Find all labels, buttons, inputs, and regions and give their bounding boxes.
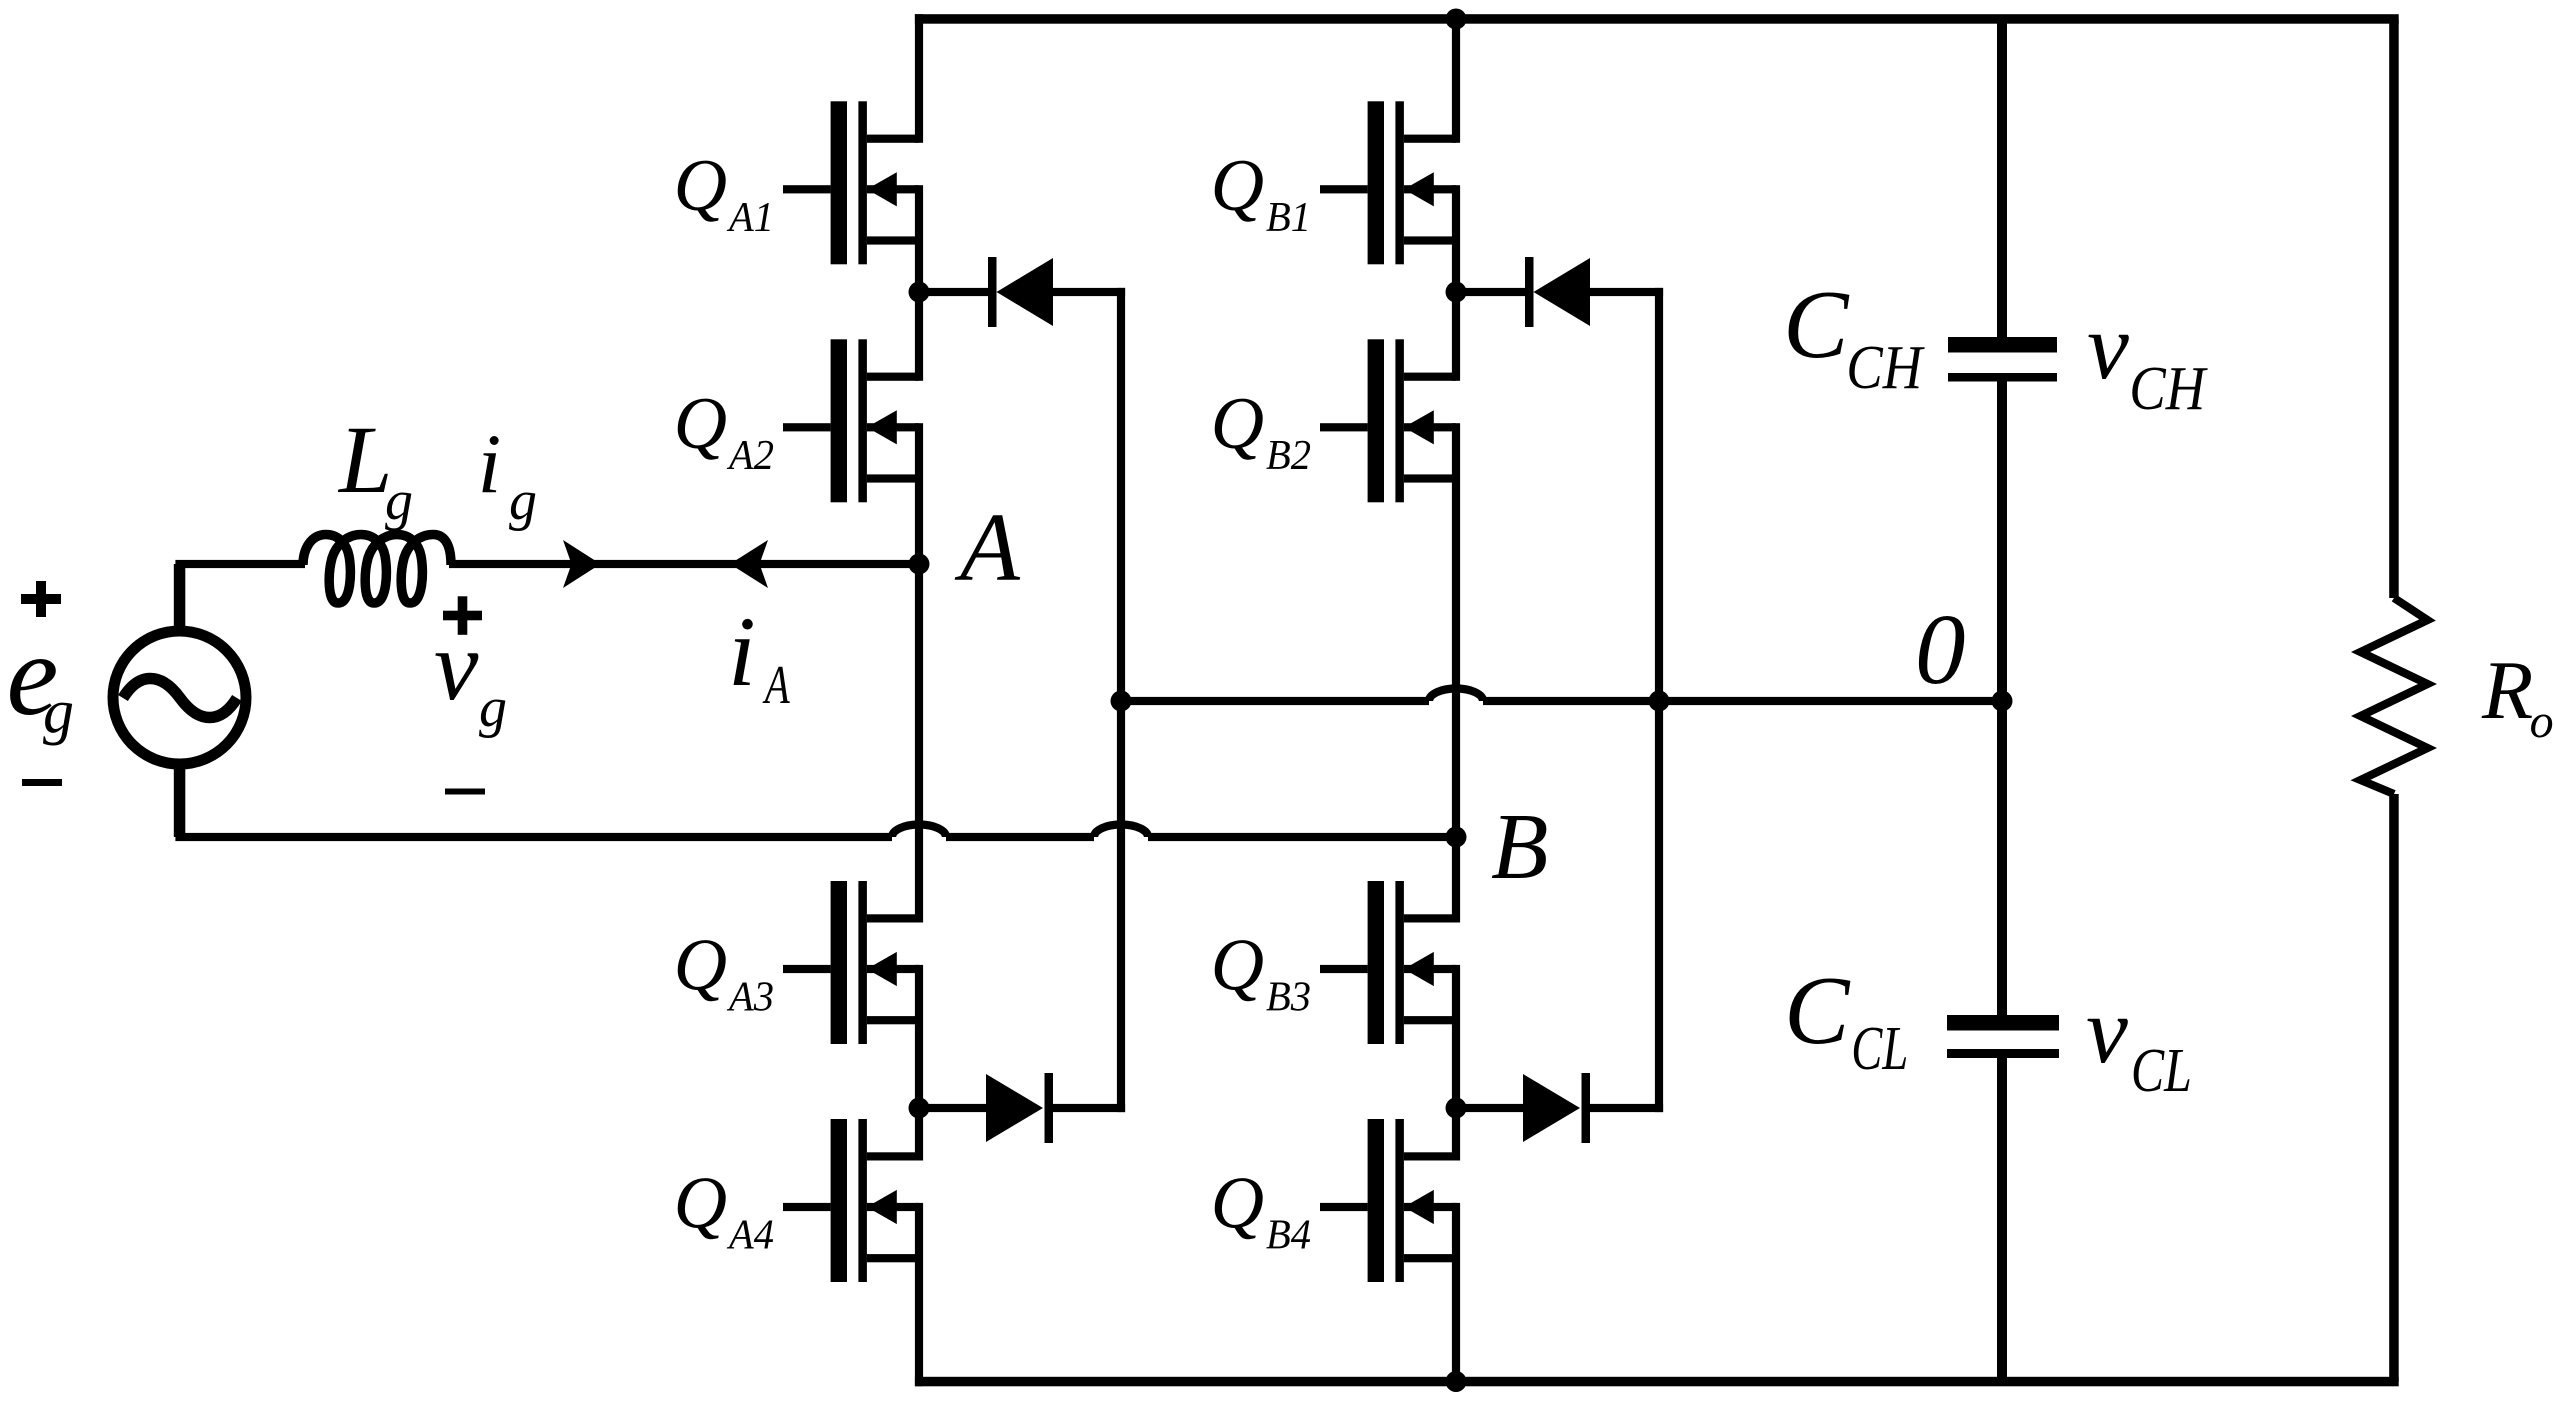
- wire source top lead: [174, 564, 186, 631]
- svg-text:i: i: [728, 596, 756, 707]
- svg-text:v: v: [2087, 295, 2129, 399]
- wire source bottom lead: [174, 764, 186, 837]
- wire clamp branch B vertical: [1655, 288, 1663, 1112]
- bottom rail (negative dc bus): [915, 1377, 2399, 1387]
- wire return right part: [1148, 833, 1456, 841]
- junction dot QA1-QA2 midpoint: [909, 282, 930, 303]
- svg-text:A: A: [954, 494, 1021, 602]
- resistor Ro: [2361, 598, 2428, 794]
- label v_g minus: [445, 789, 485, 795]
- svg-text:g: g: [509, 470, 537, 532]
- svg-text:Q: Q: [674, 1163, 727, 1245]
- diode DA2 clamp: [919, 1073, 1125, 1143]
- wire node A horizontal left part: [175, 560, 305, 568]
- svg-text:0: 0: [1915, 593, 1966, 705]
- svg-text:A1: A1: [726, 195, 774, 241]
- svg-text:B1: B1: [1266, 195, 1311, 241]
- svg-text:Q: Q: [1211, 383, 1264, 465]
- transistor QB4: [1320, 1119, 1456, 1282]
- svg-text:A: A: [762, 654, 790, 715]
- transistor QB3: [1320, 881, 1456, 1044]
- transistor QA4: [783, 1119, 919, 1282]
- svg-text:v: v: [434, 610, 479, 721]
- svg-text:A4: A4: [726, 1213, 774, 1259]
- transistor QA2: [783, 339, 919, 502]
- svg-text:A3: A3: [726, 975, 774, 1021]
- svg-text:o: o: [2530, 695, 2554, 748]
- wire hop neutral over leg B: [1429, 689, 1483, 702]
- node A junction dot: [909, 554, 930, 575]
- capacitor CCL: [1947, 1015, 2059, 1058]
- transistor QA1: [783, 101, 919, 264]
- junction dot QB3-QB4 midpoint: [1446, 1098, 1467, 1119]
- svg-text:g: g: [43, 678, 74, 746]
- wire leg A rail segments: [915, 14, 923, 1386]
- svg-text:A2: A2: [726, 433, 774, 479]
- wire neutral rail right part: [1483, 697, 2002, 705]
- inductor L_g: [303, 535, 451, 604]
- label e_g minus: [22, 779, 62, 786]
- svg-text:CL: CL: [1851, 1015, 1908, 1083]
- wire clamp branch A vertical: [1117, 288, 1125, 1112]
- capacitor CCH: [1948, 337, 2057, 382]
- svg-text:g: g: [479, 677, 507, 739]
- junction dot clamp branch A neutral: [1111, 691, 1132, 712]
- svg-text:R: R: [2481, 644, 2533, 737]
- svg-text:Q: Q: [1211, 925, 1264, 1007]
- svg-text:B4: B4: [1266, 1213, 1311, 1259]
- svg-text:B: B: [1491, 795, 1548, 899]
- svg-text:CL: CL: [2131, 1037, 2192, 1105]
- wire hop return over clamp branch A: [1094, 825, 1148, 838]
- voltage source e_g: [113, 631, 246, 764]
- junction dot leg B top rail: [1446, 9, 1467, 30]
- label e_g plus: [21, 581, 61, 617]
- current arrow i_g: [563, 540, 601, 588]
- svg-text:Q: Q: [1211, 145, 1264, 227]
- top rail (positive dc bus): [915, 14, 2399, 24]
- svg-text:C: C: [1783, 271, 1850, 379]
- diode DB2 clamp: [1456, 1073, 1663, 1143]
- svg-text:i: i: [478, 417, 502, 511]
- svg-text:B2: B2: [1266, 433, 1311, 479]
- wire bottom return to node B: [175, 833, 892, 841]
- wire leg B rail segments: [1452, 14, 1460, 1386]
- svg-text:CH: CH: [2129, 355, 2208, 423]
- diode DA1 clamp: [919, 257, 1125, 327]
- junction dot clamp branch B neutral: [1649, 691, 1670, 712]
- transistor QB1: [1320, 101, 1456, 264]
- wire return mid part: [946, 833, 1094, 841]
- wire hop return over leg A: [892, 825, 946, 838]
- transistor QA3: [783, 881, 919, 1044]
- svg-text:CH: CH: [1846, 334, 1925, 402]
- right outer rail upper segment: [2389, 19, 2399, 598]
- svg-text:Q: Q: [674, 383, 727, 465]
- svg-text:Q: Q: [674, 925, 727, 1007]
- right outer rail lower segment: [2389, 794, 2399, 1382]
- junction dot QB1-QB2 midpoint: [1446, 282, 1467, 303]
- current arrow i_A: [730, 540, 768, 588]
- wire capacitor branch segments: [1997, 19, 2007, 1382]
- wire neutral rail to node 0: [1121, 697, 1429, 705]
- svg-text:Q: Q: [1211, 1163, 1264, 1245]
- svg-text:C: C: [1784, 957, 1851, 1065]
- wire node A horizontal right part: [449, 560, 919, 568]
- svg-text:B3: B3: [1266, 975, 1311, 1021]
- label v_g plus: [443, 596, 482, 635]
- svg-text:Q: Q: [674, 145, 727, 227]
- svg-text:v: v: [2086, 979, 2128, 1083]
- node 0 junction dot: [1992, 691, 2013, 712]
- junction dot leg B bottom rail: [1446, 1371, 1467, 1392]
- svg-text:g: g: [385, 470, 413, 532]
- node B junction dot: [1446, 827, 1467, 848]
- transistor QB2: [1320, 339, 1456, 502]
- junction dot QA3-QA4 midpoint: [909, 1098, 930, 1119]
- diode DB1 clamp: [1456, 257, 1663, 327]
